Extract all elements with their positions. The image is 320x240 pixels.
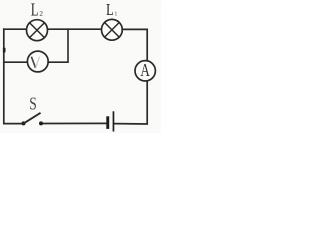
svg-text:L: L [31,0,38,20]
lamp L2 [27,20,48,41]
ammeter A [135,61,155,81]
label L1 [106,1,117,19]
junction mark on left wire [3,48,6,53]
svg-text:2: 2 [39,10,43,18]
wire voltmeter branch right [48,29,68,62]
wire voltmeter branch left [4,61,28,63]
battery thick plate (negative) [106,116,109,129]
battery thin plate (positive) [113,111,115,131]
voltmeter V [27,51,48,72]
svg-text:1: 1 [114,11,117,18]
label V [32,57,40,67]
lamp L1 [102,19,123,40]
wire bottom middle (switch to battery) [43,122,106,124]
switch S [22,113,44,125]
svg-text:S: S [29,95,37,114]
wire right-bottom vertical [114,81,147,124]
svg-text:A: A [140,61,150,80]
wire top-left segment [4,28,27,30]
wire bottom-left segment [4,29,22,123]
wire top-right corner [122,29,147,60]
wire between L2 and L1 [48,28,102,30]
label L2 [31,0,44,20]
svg-text:L: L [106,1,113,19]
